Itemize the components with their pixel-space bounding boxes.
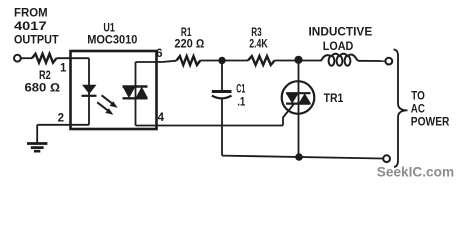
svg-text:220 Ω: 220 Ω <box>174 37 204 51</box>
svg-text:6: 6 <box>156 48 162 60</box>
svg-text:OUTPUT: OUTPUT <box>14 33 59 47</box>
svg-text:2: 2 <box>58 113 64 125</box>
svg-text:FROM: FROM <box>14 6 48 20</box>
svg-text:4: 4 <box>158 112 165 124</box>
svg-text:TR1: TR1 <box>324 91 344 105</box>
svg-text:1: 1 <box>60 63 67 75</box>
svg-text:680 Ω: 680 Ω <box>25 81 61 95</box>
svg-text:.1: .1 <box>237 95 245 109</box>
svg-text:MOC3010: MOC3010 <box>87 33 137 47</box>
svg-text:2.4K: 2.4K <box>249 37 268 51</box>
svg-text:4017: 4017 <box>14 19 47 33</box>
svg-text:C1: C1 <box>236 82 245 96</box>
svg-text:INDUCTIVE: INDUCTIVE <box>309 25 373 39</box>
svg-text:SeekIC.com: SeekIC.com <box>377 164 454 180</box>
svg-text:TO: TO <box>411 88 425 102</box>
svg-text:POWER: POWER <box>411 115 450 129</box>
svg-text:AC: AC <box>411 101 425 115</box>
svg-text:LOAD: LOAD <box>323 39 354 53</box>
